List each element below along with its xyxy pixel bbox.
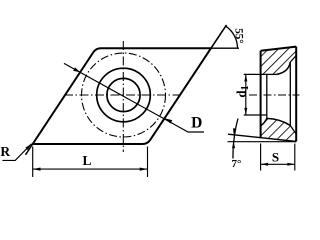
countersink rim top segment xyxy=(290,56,296,63)
rhombus outline of insert xyxy=(33,48,211,144)
bore top edge with extension xyxy=(244,73,277,75)
countersink bottom-left curve xyxy=(261,118,267,125)
D dimension line through center xyxy=(64,63,204,132)
d1 arrow up xyxy=(244,74,247,81)
S arrow left xyxy=(261,163,268,166)
R leader line xyxy=(2,144,31,161)
svg-text:L: L xyxy=(82,153,91,168)
D arrow on left edge xyxy=(73,67,80,72)
R leader arrowhead xyxy=(25,144,31,150)
vertical centerline xyxy=(122,41,124,152)
svg-text:7°: 7° xyxy=(232,158,242,170)
7 deg arc xyxy=(233,119,238,159)
hole circle xyxy=(107,78,140,111)
d1 arrow down xyxy=(244,108,247,115)
bore bottom edge with extension xyxy=(244,114,267,116)
section right face xyxy=(295,47,297,142)
countersink top curve xyxy=(277,62,291,74)
section horizontal centerline xyxy=(249,94,300,96)
right edge extension for 55 deg xyxy=(211,25,227,48)
horizontal centerline xyxy=(64,94,180,96)
section bottom edge extended left (7 deg line) xyxy=(228,134,296,141)
bore transition vertical line left xyxy=(266,74,268,118)
L arrow right xyxy=(140,168,148,171)
L dimension extension line left xyxy=(32,147,34,178)
insert plan view: outer dash-dot inscribed circle xyxy=(82,53,166,137)
section left face xyxy=(260,51,262,137)
top edge extension for 55 deg xyxy=(211,47,239,49)
svg-text:D: D xyxy=(191,115,202,132)
svg-text:55°: 55° xyxy=(233,28,246,44)
L dimension line xyxy=(33,168,148,170)
countersink circle xyxy=(97,68,151,122)
svg-text:R: R xyxy=(0,144,10,159)
horizontal reference line for 7 deg xyxy=(228,141,297,143)
countersink bottom arc right xyxy=(267,118,291,125)
L dimension extension line right xyxy=(147,147,149,178)
left edge overshoot beyond bottom-left corner xyxy=(26,144,33,155)
section view: bottom hatched band xyxy=(261,118,297,141)
S dimension line xyxy=(261,163,295,165)
7 deg arc arrow top xyxy=(233,128,236,135)
countersink rim vertical line right xyxy=(289,62,291,126)
section view: top hatched band xyxy=(261,47,297,75)
S arrow right xyxy=(287,163,294,166)
L arrow left xyxy=(33,168,41,171)
svg-text:S: S xyxy=(272,149,279,164)
S dimension extension line right xyxy=(294,144,296,171)
section top edge xyxy=(261,47,297,51)
countersink rim bottom segment xyxy=(290,126,296,135)
7 deg arc arrow bottom xyxy=(232,142,235,149)
D arrow on right edge xyxy=(165,118,172,123)
55 deg arc xyxy=(226,26,238,48)
d1 dimension line xyxy=(245,74,247,115)
S dimension extension line left xyxy=(260,144,262,171)
